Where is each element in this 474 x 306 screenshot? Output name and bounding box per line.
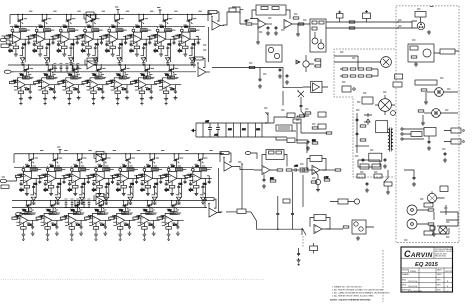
EQ band stage U2D (row 4, band 2) <box>36 200 63 241</box>
resistor R68 <box>315 59 321 61</box>
resistor R54 <box>298 23 304 25</box>
wire down to output chain <box>292 172 294 208</box>
EQ band stage U3C (row 3, band 3) <box>64 153 91 205</box>
slide pot R7G wiper link rows 3-4 <box>180 184 182 198</box>
electrolytic C91 <box>216 123 220 137</box>
wire: channel-B boost lower rail <box>12 207 207 209</box>
resistor R85 <box>428 209 434 211</box>
jack J4 <box>423 49 431 57</box>
EQ band stage U1A (row 1, band 1) <box>4 14 31 66</box>
svg-text:FAX 487-8160: FAX 487-8160 <box>435 255 446 258</box>
resistor R77 <box>270 180 276 182</box>
EQ band stage U6C (row 3, band 6) <box>136 153 163 205</box>
EQ band stage U1D (row 4, band 1) <box>12 200 39 241</box>
op-amp U10C channel-B cut summing amplifier <box>220 152 236 172</box>
op-amp U9A inline on bus 1 <box>84 12 96 23</box>
ground <box>274 31 278 35</box>
power supply dashed boundary <box>334 49 395 177</box>
op-amp U15 <box>314 225 322 234</box>
relay resistor ladder row 1 <box>342 68 348 70</box>
capacitor C50 <box>245 19 248 23</box>
wire: channel-B boost bus <box>12 200 207 202</box>
test point stub above bus 1 <box>117 10 120 15</box>
resistor R55 <box>293 17 299 19</box>
wire: channel-A input distribution rail <box>10 26 205 28</box>
bridge rectifier BR1 <box>379 99 392 112</box>
ground <box>425 92 427 100</box>
rail caps <box>362 158 365 162</box>
slide pot R3F wiper link rows 1-2 <box>72 45 74 62</box>
regulator boxes <box>369 153 382 161</box>
transistor Q6 <box>315 179 320 184</box>
capacitor C54 <box>267 26 270 30</box>
resistor R73 <box>299 115 305 117</box>
slide pot R4F wiper link rows 1-2 <box>96 45 98 62</box>
svg-text:1 MEANS NO. ON PCB LAYOUT: 1 MEANS NO. ON PCB LAYOUT <box>332 286 363 289</box>
op-amp U9C inline on bus 3 <box>94 151 106 162</box>
resistor R62 <box>418 110 424 112</box>
EQ band stage U8A (row 1, band 8) <box>174 14 201 66</box>
output jack J5 <box>435 88 444 97</box>
EQ band stage U4C (row 3, band 4) <box>88 153 115 205</box>
svg-text:DATE: DATE <box>437 268 442 271</box>
svg-text:3 ALL CAPACITORS ARE IN MICRO: 3 ALL CAPACITORS ARE IN MICROFARADS UNLE… <box>332 292 390 295</box>
wire: channel B out run <box>226 211 237 213</box>
driver feedback cluster <box>266 45 282 62</box>
svg-text:NOTES: UNLESS OTHERWISE SPECI: NOTES: UNLESS OTHERWISE SPECIFIED <box>330 300 371 302</box>
feedback network box R52/C52 <box>256 5 286 15</box>
op-amp U11B <box>284 20 292 29</box>
EQ band stage U6A (row 1, band 6) <box>125 14 152 66</box>
EQ band stage U4B (row 2, band 4) <box>82 64 109 105</box>
capacitor C76 <box>263 178 266 182</box>
transistor Q2 <box>318 43 324 49</box>
balance switch cluster <box>298 91 304 104</box>
EQ band stage U1B (row 2, band 1) <box>9 64 36 105</box>
wire: feed down to channel-B mute <box>241 164 243 209</box>
ground <box>414 62 418 66</box>
notes area dashed separator <box>382 250 384 302</box>
resistor R78 <box>277 169 283 171</box>
wire to psu edge <box>301 123 327 133</box>
wire: U10C area down link <box>219 168 223 212</box>
capacitor C82 <box>297 252 300 256</box>
op-amp U11A input buffer <box>258 20 266 29</box>
title block address text <box>435 248 454 258</box>
capacitor C53 <box>275 26 278 30</box>
op-amp U10A channel-A cut summing amplifier <box>208 11 224 31</box>
svg-text:1 of 1: 1 of 1 <box>445 291 450 293</box>
EQ band stage U7C (row 3, band 7) <box>161 153 188 205</box>
svg-text:ENG: ENG <box>402 279 406 281</box>
svg-text:735-027-94: 735-027-94 <box>408 281 417 283</box>
EQ band stage U6B (row 2, band 6) <box>130 64 157 105</box>
op-amp U14B <box>312 166 320 175</box>
jack output wires to rear edge <box>440 92 458 113</box>
wire: mute feed down to U14B <box>297 123 307 153</box>
connector J1 channel A input <box>4 70 14 73</box>
svg-text:2 ALL RESISTORS ARE 1/4 WATT: 2 ALL RESISTORS ARE 1/4 WATT 5% UNLESS N… <box>332 289 384 292</box>
resistor R86 <box>428 223 434 225</box>
capacitor C80 <box>277 196 279 212</box>
transformer T1 core <box>390 128 392 152</box>
wire into master box <box>283 86 303 106</box>
EQ band stage U2B (row 2, band 2) <box>34 64 61 105</box>
resistor R61 <box>421 89 427 91</box>
wire: U10A area down link <box>208 27 210 62</box>
wire: channel-A boost bus <box>8 64 196 66</box>
unbalanced out cluster box <box>408 44 434 62</box>
wire: to input chain <box>223 12 246 25</box>
svg-text:MOD: MOD <box>402 284 407 286</box>
switch SW4 <box>302 228 306 235</box>
EQ band stage U7A (row 1, band 7) <box>150 14 177 66</box>
EQ band stage U2C (row 3, band 2) <box>40 153 67 205</box>
slide pot R2F wiper link rows 1-2 <box>48 45 50 62</box>
channel link labels <box>203 44 206 46</box>
resistor R67 <box>312 127 318 129</box>
capacitor C65 drop <box>259 68 261 78</box>
wire: channel-A boost lower rail <box>8 71 196 73</box>
ground below R54 <box>297 24 299 32</box>
corner jack J9 <box>439 226 447 234</box>
resistor R80a <box>324 179 330 181</box>
mute switch cluster <box>384 170 388 182</box>
junction cluster right of ladder <box>265 122 267 124</box>
EQ band stage U5D (row 4, band 5) <box>109 200 136 241</box>
capacitor C77 inline <box>292 168 299 171</box>
op-amp U9D inline on bus 4 <box>94 194 106 205</box>
test point stub above bus 3 <box>59 149 62 154</box>
relay coil K1 <box>342 86 351 92</box>
chassis dashed enclosure <box>396 6 459 243</box>
wire: bus1 left stub <box>9 15 11 25</box>
wire down to output row <box>302 175 304 207</box>
resistor R81 <box>335 169 341 171</box>
slide pot R6G wiper link rows 3-4 <box>155 184 157 198</box>
main output jack J8 <box>407 219 417 229</box>
resistor R57 on line <box>349 27 355 29</box>
resistor R69 <box>315 65 321 67</box>
slide pot R3G wiper link rows 3-4 <box>83 184 85 198</box>
supply rail chain <box>356 113 358 153</box>
remote tag label box <box>395 74 403 79</box>
connector J2 channel B input <box>16 212 26 215</box>
transformer T1 secondary <box>391 129 393 149</box>
slide pot R4G wiper link rows 3-4 <box>107 184 109 198</box>
EQ band stage U3B (row 2, band 3) <box>58 64 85 105</box>
svg-text:DATE: DATE <box>437 273 442 276</box>
ladder frame <box>203 123 262 137</box>
label box near C81 <box>283 199 290 203</box>
transistor Q1 <box>312 38 318 44</box>
wire: channel A boost out down-feed <box>212 68 283 89</box>
resistor R79 <box>286 169 292 171</box>
ground at XLR <box>427 30 431 34</box>
relay resistor ladder row 2 <box>342 75 348 77</box>
pilot lamp <box>391 111 396 116</box>
feedback box R75/C75 <box>266 150 284 160</box>
speaker-left label box <box>415 80 437 85</box>
mute switch arrow <box>301 108 306 116</box>
EQ band stage U7D (row 4, band 7) <box>157 200 184 241</box>
balanced line driver block U12 <box>310 19 326 52</box>
capacitor C84 <box>413 176 416 180</box>
right edge boxes to psu <box>318 112 326 117</box>
switch SW3 <box>251 212 257 221</box>
op-amp U14A <box>262 166 270 175</box>
capacitor C66 <box>307 140 310 144</box>
master stage box with op-amp U13A <box>311 81 322 92</box>
svg-text:735-027-94: 735-027-94 <box>408 286 417 288</box>
psu lower boxes <box>357 174 365 178</box>
resistor R66 <box>305 112 311 114</box>
wire: channel-A cut summing bus <box>10 14 212 16</box>
AC receptacle <box>381 57 392 68</box>
svg-text:4 ALL RESISTORS IN OHMS, K=10: 4 ALL RESISTORS IN OHMS, K=1000 OHMS <box>332 295 374 298</box>
wire from U10C out <box>236 167 254 170</box>
fuse label box <box>393 82 402 87</box>
EQ band stage U5B (row 2, band 5) <box>106 64 133 105</box>
label box R80 <box>237 209 246 214</box>
cap cluster <box>444 152 447 156</box>
op-amp U10B channel-A boost summing amplifier <box>194 57 210 77</box>
slide pot R5F wiper link rows 1-2 <box>120 45 122 62</box>
slide pot R8F wiper link rows 1-2 <box>193 45 195 62</box>
capacitor bank C1B-C5B on boost bus <box>64 199 90 208</box>
diode D5 <box>296 60 300 64</box>
slide pot R6F wiper link rows 1-2 <box>144 45 146 62</box>
capacitor bank C1A-C5A on boost bus <box>53 63 79 72</box>
svg-text:E. POTENTIMER: E. POTENTIMER <box>408 291 423 293</box>
transformer T1 primary <box>388 129 390 149</box>
capacitor C70 <box>300 104 303 108</box>
wires to XLR output <box>340 22 412 28</box>
svg-text:EQ 2015: EQ 2015 <box>415 262 439 268</box>
slide pot R7F wiper link rows 1-2 <box>169 45 171 62</box>
slide pot R5G wiper link rows 3-4 <box>131 184 133 198</box>
supply tap box 2 <box>363 13 371 19</box>
EQ band stage U8C (row 3, band 8) <box>185 153 212 205</box>
output jack J6 <box>432 109 441 118</box>
side jack label box <box>338 199 348 204</box>
svg-text:10/27/94: 10/27/94 <box>445 271 452 273</box>
EQ band stage U6D (row 4, band 6) <box>133 200 160 241</box>
secondary connector block <box>401 128 403 130</box>
slide pot R1F wiper link rows 1-2 <box>23 45 25 62</box>
regulator box VR1 <box>376 121 388 133</box>
caps at left of master <box>279 68 282 72</box>
EQ band stage U1C (row 3, band 1) <box>15 153 42 205</box>
dotted fold separator line <box>1 279 264 281</box>
fuse holder F1 <box>451 128 461 133</box>
capacitor C81 <box>291 212 294 216</box>
main output jack J7 <box>407 205 417 215</box>
supply tap box 1 <box>337 14 344 19</box>
EQ band stage U5A (row 1, band 5) <box>101 14 128 66</box>
resistor R72 <box>312 142 318 144</box>
slide pot R8G wiper link rows 3-4 <box>204 184 206 198</box>
channel B aux connector <box>0 179 10 182</box>
EQ band stage U5C (row 3, band 5) <box>112 153 139 205</box>
EQ band stage U7B (row 2, band 7) <box>155 64 182 105</box>
smoothing capacitor ladder rails <box>191 129 194 133</box>
rectifier box <box>424 128 436 137</box>
title block frame <box>401 247 453 292</box>
wire: channel-B cut summing bus <box>14 153 224 155</box>
EQ band stage U4A (row 1, band 4) <box>77 14 104 66</box>
zener D10 <box>364 113 372 125</box>
slide pot R2G wiper link rows 3-4 <box>59 184 61 198</box>
svg-text:K. KIESEL: K. KIESEL <box>408 271 417 273</box>
filter capacitor C60 <box>366 182 369 186</box>
EQ band stage U3D (row 4, band 3) <box>60 200 87 241</box>
electrolytic C90 <box>208 123 214 137</box>
svg-text:DRAWN: DRAWN <box>402 273 409 276</box>
resistor R51 <box>246 23 252 25</box>
op-amp U10D channel-B boost summing amplifier <box>205 198 221 218</box>
slide pot R1G wiper link rows 3-4 <box>34 184 36 198</box>
mute label box <box>293 119 301 123</box>
aux connector stub <box>245 152 251 155</box>
rear jack J10 <box>427 193 436 202</box>
rear jack label boxes <box>424 203 433 207</box>
jack label box <box>310 246 318 251</box>
transistor Q3 <box>303 61 309 67</box>
XLR connector J3 balanced out <box>417 22 425 30</box>
capacitor C78 inline <box>300 168 308 171</box>
test point stub 2 above bus 1 <box>159 10 162 15</box>
resistor R60 <box>411 56 417 58</box>
resistor R83 <box>343 226 349 228</box>
system mute label box <box>358 160 380 167</box>
wire: channel-B input distribution rail <box>14 166 212 168</box>
right riser boxes <box>274 117 287 123</box>
input pad cluster <box>232 7 240 14</box>
AC feed wires <box>334 56 381 69</box>
psu mid box <box>362 97 373 104</box>
channel A aux connector <box>0 38 10 41</box>
EQ band stage U4D (row 4, band 4) <box>85 200 112 241</box>
supply text marks <box>355 155 358 157</box>
fuse holder F2 <box>451 139 461 144</box>
aux switch cluster <box>300 168 308 172</box>
EQ band stage U3A (row 1, band 3) <box>53 14 80 66</box>
dashed stub at output mute <box>302 236 304 248</box>
EQ band stage U2A (row 1, band 2) <box>29 14 56 66</box>
AC wires entering psu <box>296 113 308 140</box>
op-amp U9B inline on bus 2 <box>85 58 97 69</box>
relay cluster K1 <box>352 220 366 234</box>
resistor R65 on feed <box>249 66 255 68</box>
resistor R56 on line <box>349 21 355 23</box>
power label box <box>276 125 292 131</box>
cue/headphone label <box>440 49 455 54</box>
